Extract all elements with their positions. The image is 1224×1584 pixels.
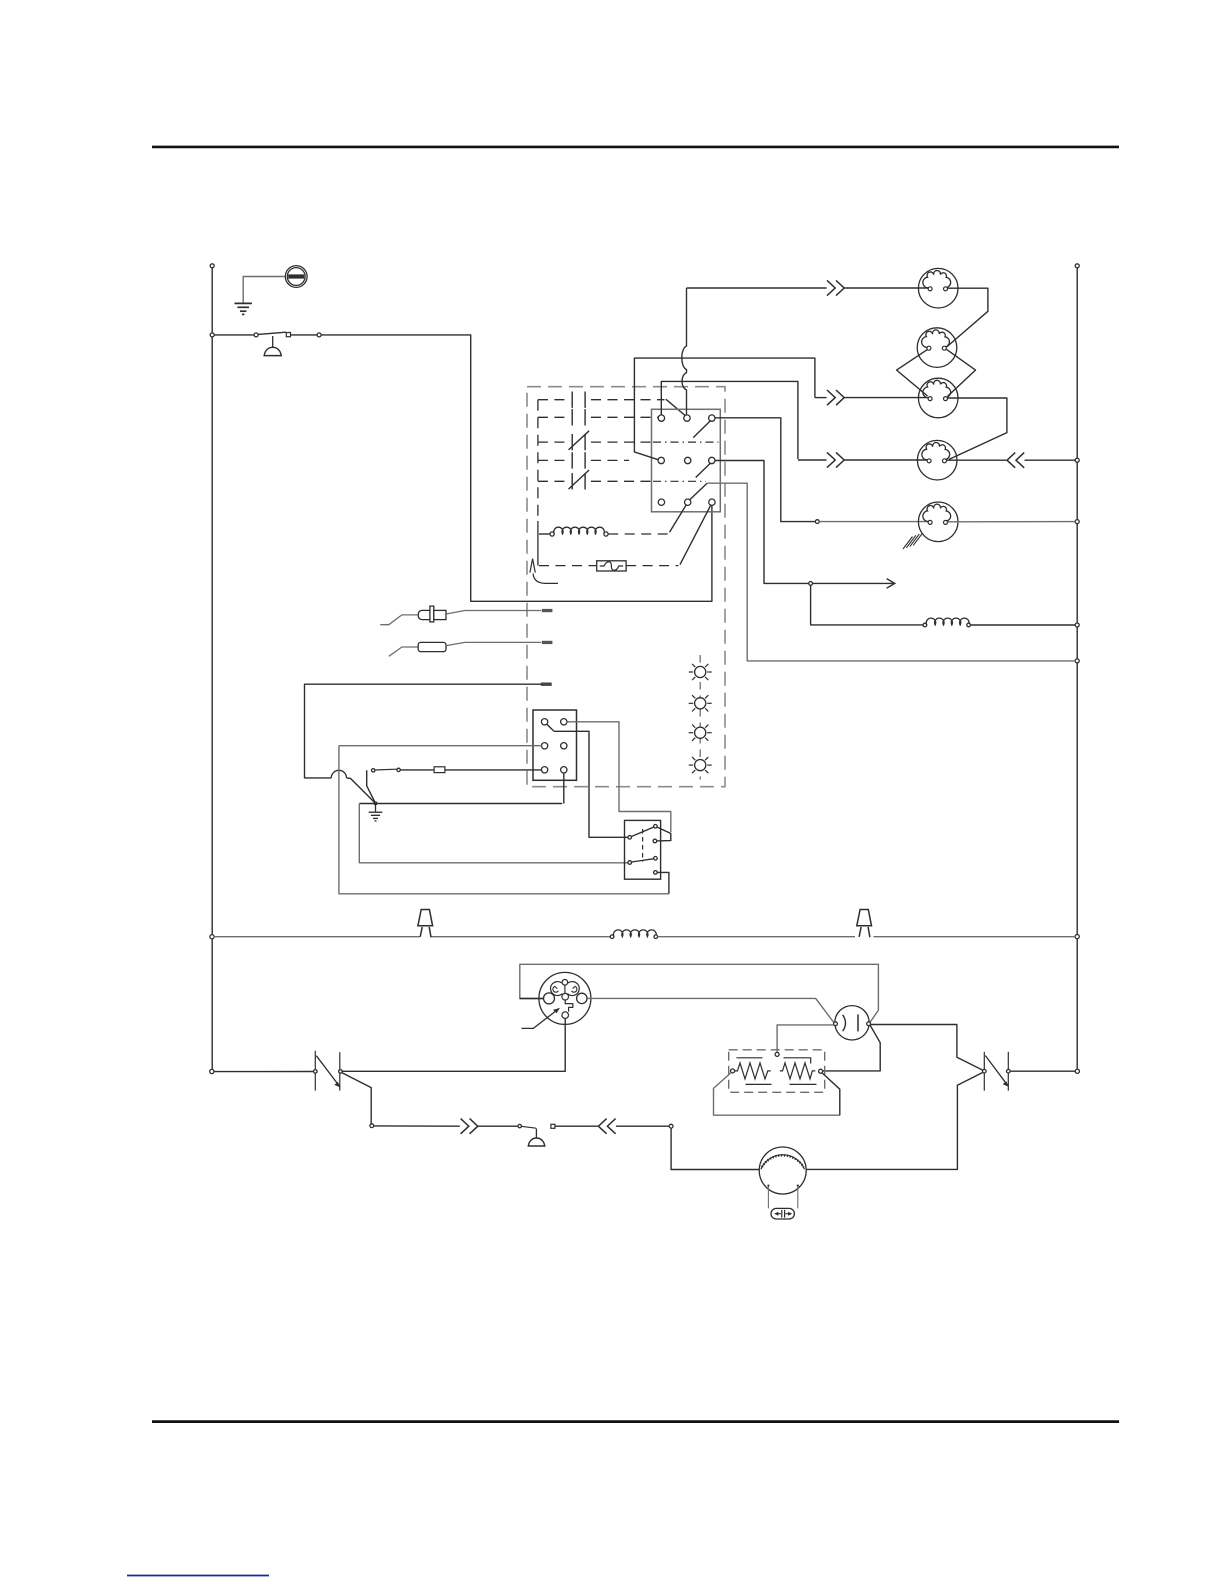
indicator light 1: [689, 664, 712, 680]
probe line 3 connector pin: [541, 683, 552, 686]
connector arrows lower >>: [461, 1119, 478, 1134]
wire igniter arrow right: [813, 582, 894, 584]
wire cap right to thermostat right: [823, 1026, 881, 1071]
node L2-burner5 junction: [1075, 520, 1079, 524]
CN1 pin 6: [561, 767, 567, 773]
wire F2 to connector pin 5: [445, 769, 542, 771]
burner B1: [918, 268, 958, 308]
CN1 pin 2: [561, 719, 567, 725]
node L2-ovencoil junction: [1075, 623, 1079, 627]
footer link underline: [127, 1575, 269, 1577]
probe P1 connector pin: [542, 609, 553, 612]
wire to connector node: [291, 334, 317, 336]
wire relay A-right to burner5: [715, 418, 816, 522]
switch S2 contact b: [397, 768, 400, 771]
node L2-broil junction: [1075, 659, 1079, 663]
switch S4 square contact: [551, 1124, 555, 1128]
control board dashed outline: [527, 387, 725, 787]
burner B5: [918, 502, 958, 542]
switch S4 blade: [521, 1126, 536, 1128]
wire J1 to connector pin 6: [563, 773, 565, 803]
buzzer bell: [272, 336, 274, 348]
wire CN1 pin1 to selector top-left: [554, 731, 628, 837]
node burner5 inline connector: [815, 520, 819, 524]
wire coil to relay pin C-mid (dashed+diag): [608, 533, 668, 535]
door switch contact square: [286, 333, 290, 337]
relay coil: [550, 532, 554, 536]
motor M2: [759, 1147, 806, 1194]
contact row 2: [538, 416, 566, 418]
interlock switch SR: [983, 1052, 985, 1091]
S3 mechanical link dashed: [642, 829, 644, 862]
wire burner2-3 diamond left: [897, 349, 928, 396]
wire lower bus: [214, 936, 610, 938]
indicator light 4: [689, 757, 712, 773]
S3 contact R4: [654, 871, 658, 875]
thermostat top terminal: [775, 1052, 779, 1056]
CN1 pin 4: [561, 743, 567, 749]
wire motor right to interlock R: [806, 1072, 983, 1169]
wire J1 horizontal: [359, 803, 562, 805]
wire switch-leg to J1: [367, 770, 376, 803]
door switch blade: [258, 332, 286, 334]
wire burner1 right loop to burner2: [947, 288, 988, 347]
node J1: [374, 802, 377, 805]
S3 blade lower: [632, 859, 654, 862]
signal lamp T1: [418, 910, 433, 939]
node lower line left: [370, 1124, 374, 1128]
wire L1 bottom to interlock L: [214, 1071, 313, 1073]
thermostat left blade + loop: [714, 1073, 840, 1116]
wire relay B-left feed (burner3): [634, 358, 815, 460]
S3 contact R3: [654, 857, 658, 861]
wire relay B-right to igniter/oven coil: [715, 461, 809, 584]
interlock switch SL: [314, 1051, 316, 1091]
wire bolt to ground: [243, 277, 285, 303]
node L1-lower junction: [210, 935, 214, 939]
thermostat element 2: [780, 1063, 816, 1079]
node igniter branch: [809, 582, 813, 586]
wire fuse to relay pin C-right: [680, 505, 711, 564]
wire burner1 feed top: [687, 287, 827, 289]
wire J1 left drop to selector: [359, 804, 628, 863]
relay pins row A: [658, 415, 664, 421]
row1 blade to relay pin 2: [666, 399, 687, 416]
node L1 terminal: [210, 264, 214, 268]
node L2-burner4 junction: [1075, 458, 1079, 462]
wire burner2-3 diamond right: [946, 349, 975, 396]
indicator light 3: [689, 725, 712, 741]
igniter electrode arrow: [530, 559, 533, 573]
S3 blade upper: [632, 827, 654, 836]
thermostat TH1 dashed box: [729, 1050, 825, 1093]
oven inductor L4: [923, 623, 927, 627]
connector CN1 box: [533, 710, 577, 780]
wire L2 bus vertical: [1076, 268, 1078, 1069]
wire CN1 pin2 to selector flag: [567, 722, 671, 832]
CN1 pin 3: [541, 743, 547, 749]
wire L1 to door switch: [214, 334, 254, 336]
node L1-doorswitch junction: [210, 333, 214, 337]
node L1 bottom end: [210, 1069, 214, 1073]
contact row 5 (NC): [538, 480, 566, 482]
wire clock right lead to capacitor: [587, 998, 834, 1022]
thermostat contact right: [819, 1069, 823, 1073]
burner B5 hatch marks: [903, 537, 913, 550]
thermostat right blade: [822, 1073, 840, 1115]
switch S2 blade: [375, 768, 397, 771]
wire burner5 right to L2: [948, 521, 1076, 523]
S3 contact L1: [628, 836, 632, 840]
node L2-lower junction: [1075, 935, 1079, 939]
page top rule: [152, 146, 1119, 149]
wire cap right to interlock R: [871, 1025, 983, 1071]
relay blade B-right: [696, 463, 711, 477]
switch S4 contact a: [518, 1124, 521, 1127]
contact row 4: [538, 459, 566, 461]
wire burner4 right to L2: [947, 459, 1007, 461]
burner B4: [917, 440, 957, 480]
wire lights dashed chain: [699, 655, 701, 780]
oven sensor probe P2: [389, 647, 418, 656]
relay pins row C: [658, 499, 664, 505]
wire S2 to fuse F2: [400, 769, 434, 771]
burner B3: [918, 378, 958, 418]
wire clock left lead: [520, 998, 544, 1000]
thermal fuse: [539, 565, 597, 567]
chassis bolt symbol: [285, 266, 307, 288]
relay K1 box: [652, 409, 721, 512]
fuse F2: [434, 767, 445, 773]
wire probe line 3: [305, 684, 542, 778]
wire relay A-mid riser with hops: [682, 288, 687, 415]
relay blade A-right: [693, 421, 710, 438]
wire burner4 feed: [798, 459, 827, 461]
CN1 blade pin1: [547, 724, 554, 731]
wire CN1 pin3 left: [339, 745, 543, 747]
wire interlock R to L2: [1010, 1070, 1075, 1072]
connector node circle: [317, 333, 321, 337]
ground G1: [235, 303, 252, 314]
wire relay A-left riser: [661, 381, 798, 459]
clock set arrow: [522, 1009, 559, 1029]
contact row 1: [538, 399, 566, 401]
wire clock bypass loop: [520, 964, 879, 1022]
S3 contact R2: [653, 839, 657, 843]
node motor branch: [669, 1124, 673, 1128]
ladder rail dashed: [537, 400, 539, 521]
clock stem: [564, 985, 566, 993]
wire cap left to thermostat top: [777, 1025, 834, 1053]
node L2 bottom end: [1075, 1069, 1079, 1073]
burner B2: [917, 328, 957, 368]
ladder rail solid part: [537, 521, 539, 566]
wire L1 bus vertical: [211, 268, 213, 1070]
wire relay C-mid to L2 broil: [707, 483, 1075, 661]
CN1 pin 1: [541, 719, 547, 725]
relay blade C-middle: [689, 483, 707, 500]
relay pins row B: [658, 457, 664, 463]
capacitor C1: [835, 1006, 869, 1040]
selector S3 box: [625, 820, 661, 879]
node L2 terminal: [1075, 264, 1079, 268]
wire rail to coil: [539, 533, 550, 535]
ground G2 at J1: [375, 803, 377, 811]
wire branch to lower line: [342, 1073, 372, 1124]
signal lamp T2: [857, 910, 872, 939]
inductor L3 on lower bus: [610, 935, 614, 939]
wire doorswitch to relay bottom-right: [321, 335, 712, 601]
switch S2 contact a: [372, 769, 375, 772]
probe P2 connector pin: [542, 641, 553, 644]
wire S3 R4 to bottom return: [657, 872, 669, 893]
oven sensor probe P1: [380, 615, 418, 625]
thermostat contact left: [731, 1069, 735, 1073]
wire interlock L to clock: [342, 1018, 565, 1071]
S3 contact R1: [654, 825, 658, 829]
contact row 3 (NC): [538, 441, 566, 443]
wire hop over vertical: [331, 770, 346, 778]
wire vertical x339 down: [339, 746, 669, 894]
page bottom rule: [152, 1420, 1119, 1423]
clock timer M1: [539, 972, 591, 1024]
wire node down to motor: [671, 1128, 759, 1169]
wire burner3 right loop to burner4: [948, 398, 1007, 459]
door switch contact a: [254, 333, 258, 337]
S3 chevron flag: [657, 827, 671, 841]
thermostat element 1: [735, 1063, 771, 1079]
buzzer bell 2: [535, 1128, 537, 1138]
wire lower line to arrows: [374, 1125, 460, 1127]
CN1 pin 5: [541, 767, 547, 773]
indicator light 2: [689, 695, 712, 711]
wire S4 to arrows <<: [555, 1125, 598, 1127]
S3 contact L2: [628, 861, 632, 865]
connector arrows burner1: [827, 280, 844, 295]
motor overload protector: [767, 1187, 769, 1209]
wire branch to oven coil: [811, 585, 923, 625]
